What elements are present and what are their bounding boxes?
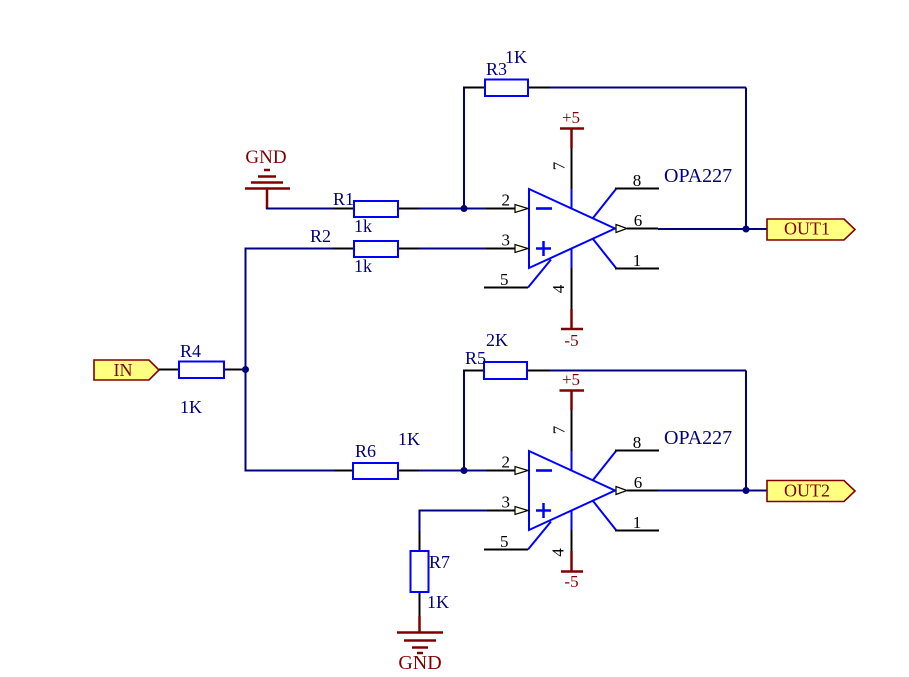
- op-amp U2 OPA227: [529, 451, 615, 530]
- svg-text:7: 7: [549, 161, 568, 170]
- pin 1 of U2: [593, 501, 659, 532]
- svg-text:GND: GND: [398, 652, 441, 674]
- pin 8 of U1: [593, 171, 659, 218]
- main vertical wire: [245, 248, 247, 472]
- svg-text:OUT2: OUT2: [784, 481, 830, 501]
- svg-text:-5: -5: [564, 572, 578, 591]
- resistor R1: [333, 201, 419, 217]
- svg-text:+5: +5: [562, 108, 580, 127]
- pin 7 of U2: [549, 410, 571, 470]
- svg-text:4: 4: [549, 284, 568, 293]
- svg-text:1k: 1k: [354, 256, 372, 276]
- svg-text:8: 8: [633, 433, 642, 452]
- port OUT1: [767, 219, 855, 241]
- junction node output U1: [743, 226, 750, 233]
- svg-text:GND: GND: [245, 147, 286, 168]
- pin 1 of U1: [593, 239, 659, 270]
- svg-text:1K: 1K: [427, 592, 449, 612]
- svg-text:R4: R4: [180, 341, 201, 361]
- svg-text:5: 5: [500, 532, 509, 551]
- port IN: [94, 360, 159, 380]
- svg-text:OPA227: OPA227: [664, 427, 732, 449]
- power -5 for U1: [561, 309, 583, 350]
- pin 2 of U1: [486, 191, 528, 213]
- svg-text:2: 2: [502, 191, 511, 210]
- svg-text:4: 4: [548, 548, 567, 557]
- power -5 for U2: [561, 551, 583, 591]
- svg-text:1: 1: [633, 513, 642, 532]
- svg-text:IN: IN: [114, 360, 133, 380]
- wire output U1: [658, 228, 746, 230]
- resistor R7: [411, 531, 429, 616]
- svg-text:8: 8: [633, 171, 642, 190]
- pin 3 of U1: [486, 231, 528, 253]
- wire R1 to pin2: [419, 208, 487, 210]
- pin 6 of U1: [616, 211, 658, 233]
- ground GND top: [245, 147, 290, 209]
- svg-text:1K: 1K: [505, 47, 527, 67]
- resistor R2: [333, 241, 419, 257]
- junction node at R1 output: [461, 205, 468, 212]
- pin 3 of U2: [486, 493, 528, 515]
- svg-text:2K: 2K: [486, 330, 508, 350]
- wire to OUT2: [746, 490, 767, 492]
- svg-text:5: 5: [500, 270, 509, 289]
- ground GND bottom: [397, 616, 443, 674]
- pin 6 of U2: [616, 473, 658, 495]
- resistor R4: [159, 362, 246, 379]
- junction node at R6 output: [461, 467, 468, 474]
- svg-text:R2: R2: [310, 226, 331, 246]
- resistor R5: [463, 362, 550, 379]
- svg-text:OPA227: OPA227: [664, 165, 732, 187]
- wire feedback vertical left: [463, 88, 465, 209]
- pin 2 of U2: [486, 453, 528, 475]
- power +5 for U1: [560, 108, 584, 148]
- wire GND to R1: [266, 208, 334, 210]
- op-amp U1 OPA227: [529, 189, 615, 268]
- svg-text:R5: R5: [465, 348, 486, 368]
- resistor R3: [463, 80, 550, 97]
- svg-text:1: 1: [633, 251, 642, 270]
- pin 5 of U1: [484, 260, 551, 290]
- wire feedback2 vertical right: [745, 371, 747, 491]
- svg-text:R3: R3: [486, 59, 507, 79]
- pin 7 of U1: [549, 148, 571, 209]
- wire R2 to pin3: [419, 248, 487, 250]
- wire feedback2 vertical left: [463, 371, 465, 471]
- wire feedback vertical right: [745, 88, 747, 230]
- wire R3 to right: [550, 87, 746, 89]
- svg-text:1K: 1K: [180, 397, 202, 417]
- svg-text:7: 7: [549, 425, 568, 434]
- svg-text:R6: R6: [355, 441, 376, 461]
- junction node output U2: [743, 487, 750, 494]
- svg-text:6: 6: [634, 473, 643, 492]
- wire output U2: [658, 490, 746, 492]
- wire R5 to right: [550, 370, 746, 372]
- wire R6 input horizontal: [246, 470, 336, 472]
- svg-text:3: 3: [502, 493, 511, 512]
- wire R6 to pin2: [419, 470, 487, 472]
- wire to OUT1: [746, 228, 767, 230]
- port OUT2: [767, 481, 855, 502]
- svg-text:3: 3: [502, 231, 511, 250]
- svg-text:+5: +5: [562, 370, 580, 389]
- pin 4 of U1: [549, 249, 572, 309]
- wire R2 input horizontal: [246, 248, 335, 250]
- pin 5 of U2: [484, 522, 551, 552]
- svg-text:R7: R7: [429, 552, 450, 572]
- pin 8 of U2: [593, 433, 659, 480]
- svg-text:-5: -5: [564, 331, 578, 350]
- junction node at R4 output: [242, 366, 249, 373]
- svg-text:6: 6: [634, 211, 643, 230]
- wire pin3 of U2 to R7: [420, 510, 488, 532]
- svg-text:1k: 1k: [354, 216, 372, 236]
- svg-text:OUT1: OUT1: [784, 219, 830, 239]
- svg-text:2: 2: [502, 453, 511, 472]
- svg-text:R1: R1: [333, 189, 354, 209]
- resistor R6: [334, 463, 419, 479]
- svg-text:1K: 1K: [398, 429, 420, 449]
- pin 4 of U2: [548, 511, 571, 557]
- power +5 for U2: [560, 370, 585, 410]
